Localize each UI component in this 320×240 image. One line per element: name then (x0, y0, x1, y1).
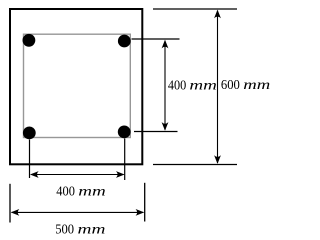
label 500 mm (55, 223, 105, 238)
arrowhead right horizontal 400 mm (116, 171, 125, 178)
rebar bottom-right (118, 125, 131, 138)
extension line left for horizontal 400 mm dimension (29, 140, 31, 179)
label 600 mm (221, 78, 270, 93)
arrowhead left horizontal 400 mm (30, 171, 39, 178)
rebar top-left (23, 34, 36, 47)
dimension line 400 mm (vertical) (164, 41, 166, 130)
arrowhead right 500 mm (136, 209, 145, 216)
arrowhead down 600 mm (214, 155, 221, 164)
rebar top-right (118, 35, 131, 48)
arrowhead up 600 mm (214, 10, 221, 19)
extension line bottom for 600 mm dimension (153, 164, 237, 166)
extension line left for 500 mm dimension (9, 184, 11, 223)
dimension line 600 mm (vertical) (217, 11, 219, 164)
label 400 mm (horizontal dimension) (56, 185, 106, 200)
svg-text:400: 400 (56, 185, 75, 200)
arrowhead left 500 mm (11, 209, 20, 216)
dimension line 400 mm (horizontal) (31, 174, 124, 176)
svg-text:mm: mm (189, 78, 217, 93)
extension line right for horizontal 400 mm dimension (124, 139, 126, 181)
extension line top for 600 mm dimension (153, 8, 237, 10)
dimension line 500 mm (horizontal) (12, 211, 144, 213)
rebar bottom-left (23, 126, 36, 139)
arrowhead down vertical 400 mm (162, 122, 169, 131)
svg-text:500: 500 (55, 223, 74, 238)
svg-text:mm: mm (78, 185, 106, 200)
extension line top for vertical 400 mm dimension (132, 38, 180, 40)
svg-text:mm: mm (243, 78, 270, 93)
svg-text:600: 600 (221, 78, 240, 93)
extension line bottom for vertical 400 mm dimension (134, 131, 178, 133)
arrowhead up vertical 400 mm (162, 40, 169, 49)
stirrup (inner tie rectangle) (24, 34, 131, 137)
column concrete outline rectangle (10, 9, 142, 164)
extension line right for 500 mm dimension (144, 183, 146, 222)
svg-text:mm: mm (78, 223, 106, 238)
label 400 mm (vertical dimension) (168, 78, 217, 93)
svg-text:400: 400 (168, 78, 186, 93)
